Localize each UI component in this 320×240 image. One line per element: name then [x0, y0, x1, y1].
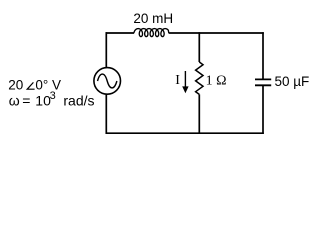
- capacitor C1 top plate: [255, 78, 271, 80]
- wire left branch upper: [105, 32, 107, 67]
- inductor L1: [134, 29, 169, 37]
- current arrow head: [182, 86, 188, 93]
- svg-text:=: =: [22, 93, 30, 109]
- svg-text:I: I: [175, 73, 180, 88]
- svg-text:0° V: 0° V: [35, 78, 61, 93]
- wire left branch lower: [105, 94, 107, 134]
- angle symbol: [27, 82, 34, 89]
- wire middle branch upper: [198, 32, 200, 62]
- svg-text:3: 3: [50, 90, 56, 102]
- svg-text:20 mH: 20 mH: [133, 11, 173, 26]
- wire middle branch lower: [198, 94, 200, 134]
- svg-text:1 Ω: 1 Ω: [206, 73, 227, 88]
- current arrow shaft: [184, 71, 186, 87]
- wire right branch upper: [262, 32, 264, 79]
- resistor R1 zigzag: [196, 62, 203, 94]
- wire right branch lower: [262, 85, 264, 134]
- svg-text:50 µF: 50 µF: [275, 74, 310, 89]
- capacitor C1 bottom plate: [255, 84, 271, 86]
- svg-text:20: 20: [8, 78, 23, 93]
- source V1 circle: [94, 68, 121, 95]
- wire top-left segment: [106, 32, 135, 34]
- svg-text:rad/s: rad/s: [63, 93, 94, 109]
- svg-text:ω: ω: [9, 93, 20, 109]
- wire top-right segment: [169, 32, 264, 34]
- source V1 sine wave: [98, 74, 117, 88]
- wire bottom: [106, 132, 264, 134]
